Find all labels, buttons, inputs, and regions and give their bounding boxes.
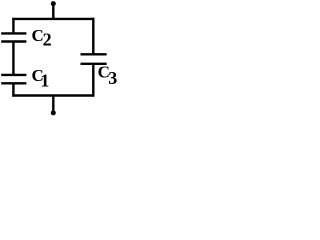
capacitor C3 (81, 54, 107, 64)
wire right lower (92, 64, 94, 97)
label C3 (98, 63, 118, 88)
svg-text:1: 1 (40, 71, 49, 91)
wire right upper (92, 18, 94, 55)
wire top stub (52, 4, 54, 19)
svg-text:3: 3 (108, 68, 117, 88)
node top terminal (51, 1, 56, 6)
node bottom terminal (51, 110, 56, 115)
label C1 (32, 66, 50, 91)
wire bottom (12, 94, 94, 96)
label C2 (32, 26, 52, 50)
wire left lower (12, 83, 14, 96)
wire left upper (12, 18, 14, 34)
wire bottom stub (52, 96, 54, 113)
wire top (12, 18, 94, 20)
capacitor C2 (1, 33, 26, 41)
capacitor C1 (1, 75, 26, 83)
svg-text:2: 2 (43, 30, 52, 50)
wire left middle (12, 42, 14, 75)
